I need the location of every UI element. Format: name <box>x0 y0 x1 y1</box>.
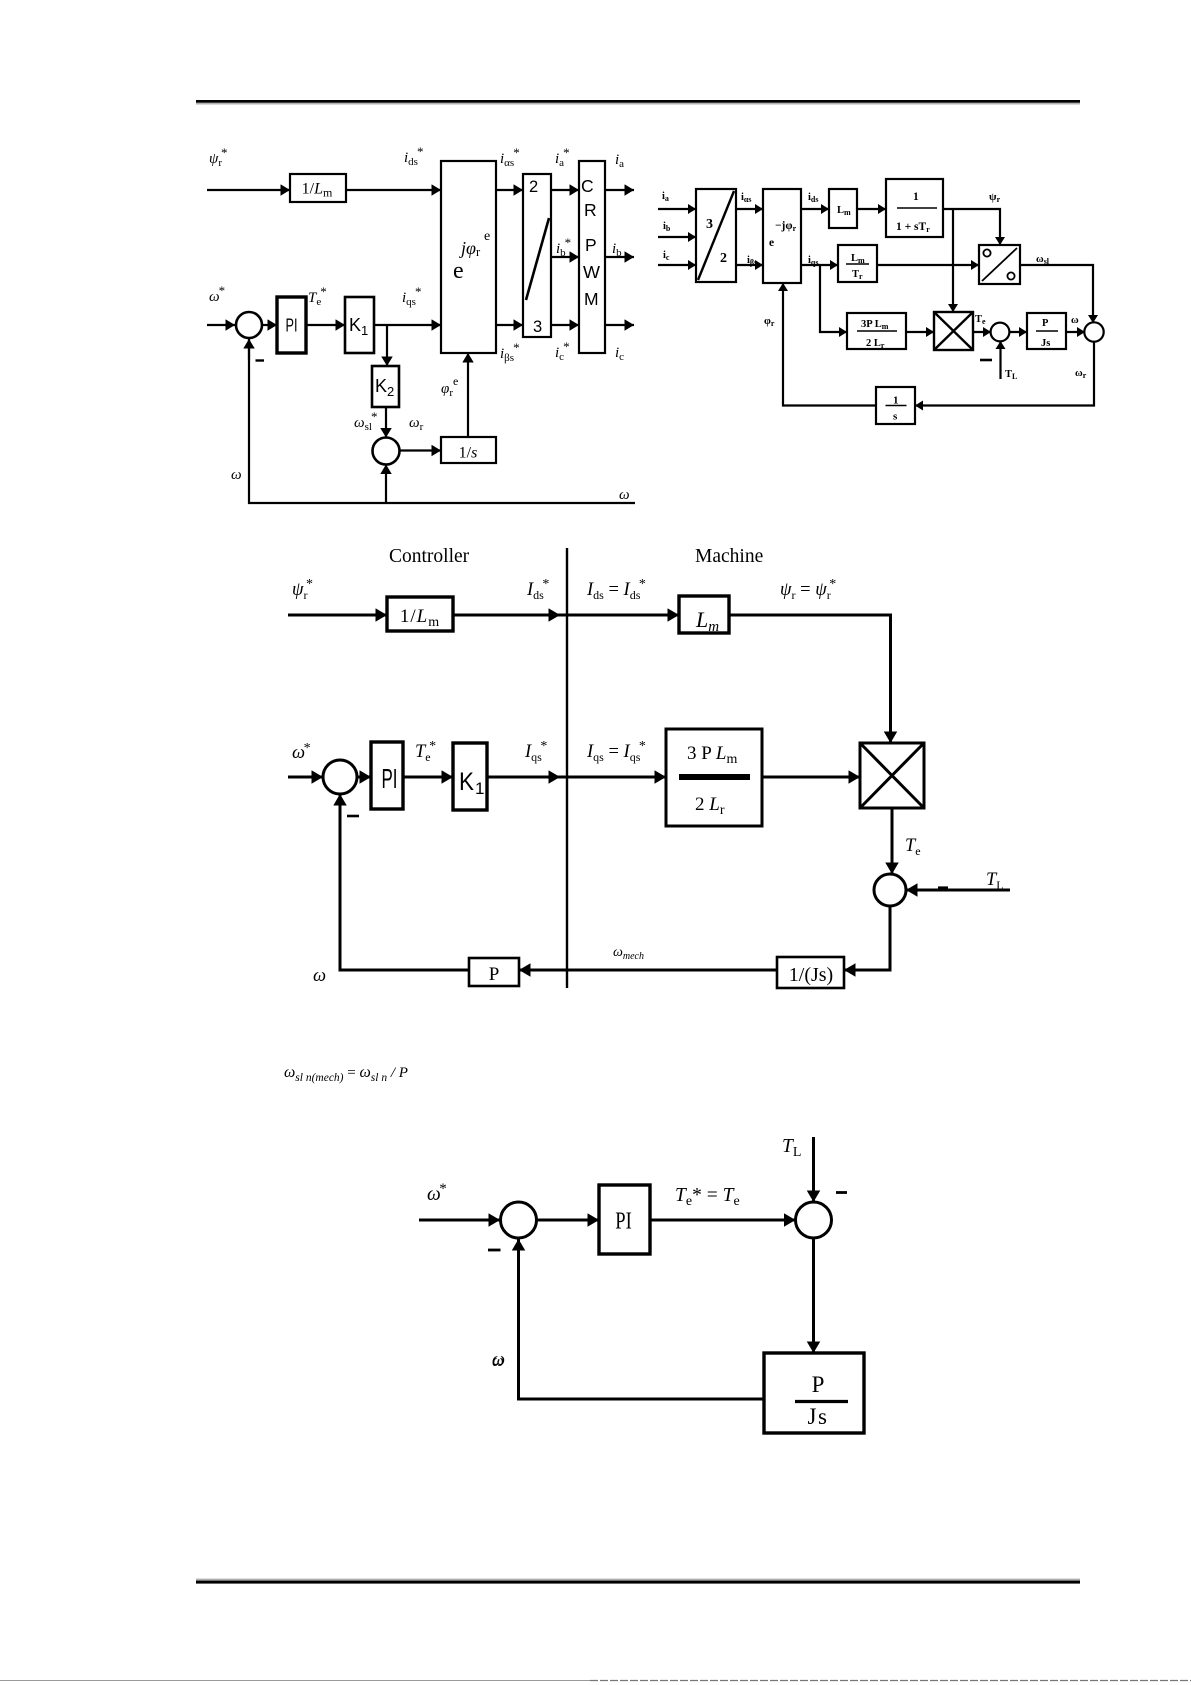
svg-text:ψr*: ψr* <box>292 577 313 602</box>
svg-text:Js: Js <box>1041 338 1050 349</box>
svg-text:Ids = Ids*: Ids = Ids* <box>586 577 646 602</box>
svg-text:3: 3 <box>706 217 713 232</box>
svg-text:K1: K1 <box>349 315 368 338</box>
svg-text:M: M <box>584 289 599 309</box>
svg-text:ω*: ω* <box>209 283 225 305</box>
svg-text:P: P <box>585 235 597 255</box>
svg-text:Te: Te <box>905 836 921 858</box>
svg-text:1: 1 <box>913 191 919 203</box>
svg-text:PI: PI <box>286 316 298 336</box>
svg-text:1/s: 1/s <box>459 445 478 462</box>
svg-text:3 P Lm: 3 P Lm <box>687 743 737 767</box>
svg-text:1: 1 <box>893 395 899 407</box>
svg-text:PI: PI <box>615 1209 632 1235</box>
svg-text:ω: ω <box>231 467 242 483</box>
svg-text:W: W <box>583 262 600 282</box>
svg-text:Machine: Machine <box>695 546 763 567</box>
svg-text:3: 3 <box>533 318 542 336</box>
svg-text:ids: ids <box>808 192 818 204</box>
svg-text:ωr: ωr <box>409 415 424 433</box>
svg-text:ia: ia <box>615 152 624 170</box>
svg-text:TL: TL <box>1005 369 1017 381</box>
svg-text:P: P <box>812 1372 825 1397</box>
svg-text:φre: φre <box>441 374 458 399</box>
svg-text:−jφr: −jφr <box>775 220 797 233</box>
svg-text:2 Lr: 2 Lr <box>866 338 885 350</box>
svg-text:s: s <box>893 411 898 423</box>
svg-text:ωsl: ωsl <box>1036 254 1050 266</box>
svg-text:ib: ib <box>612 241 622 259</box>
svg-text:ωsl*: ωsl* <box>354 409 377 433</box>
svg-text:ic*: ic* <box>555 339 570 363</box>
svg-text:Ids*: Ids* <box>526 577 549 602</box>
svg-text:ωr: ωr <box>1075 368 1087 380</box>
svg-text:ia: ia <box>662 191 669 203</box>
svg-text:P: P <box>1042 318 1049 329</box>
svg-text:iqs*: iqs* <box>402 284 421 308</box>
svg-text:ω: ω <box>313 966 326 986</box>
svg-text:Lm: Lm <box>695 607 719 635</box>
svg-text:ia*: ia* <box>555 145 570 169</box>
svg-text:ω: ω <box>619 487 630 503</box>
svg-text:ids*: ids* <box>404 144 423 168</box>
svg-text:TL: TL <box>986 870 1004 892</box>
svg-text:Te: Te <box>975 314 986 326</box>
svg-text:1/Lm: 1/Lm <box>400 606 440 630</box>
svg-text:Lm: Lm <box>837 205 851 217</box>
svg-text:2: 2 <box>720 251 727 266</box>
svg-text:ib: ib <box>663 221 671 233</box>
svg-text:1/Lm: 1/Lm <box>302 181 333 200</box>
svg-text:ωmech: ωmech <box>613 945 644 962</box>
svg-text:iαs*: iαs* <box>500 145 520 169</box>
svg-text:ψr*: ψr* <box>209 145 228 169</box>
svg-text:e: e <box>453 258 464 284</box>
svg-text:TL: TL <box>782 1136 801 1160</box>
svg-text:Iqs = Iqs*: Iqs = Iqs* <box>586 739 646 764</box>
svg-text:ic: ic <box>663 250 670 262</box>
svg-text:Js: Js <box>808 1404 829 1429</box>
svg-text:Te*: Te* <box>415 739 436 764</box>
svg-text:Iqs*: Iqs* <box>524 739 547 764</box>
svg-text:P: P <box>489 964 500 985</box>
svg-text:Controller: Controller <box>389 546 470 567</box>
svg-text:1 + sTr: 1 + sTr <box>896 221 930 234</box>
svg-text:PI: PI <box>382 763 398 794</box>
svg-text:ic: ic <box>615 345 624 363</box>
svg-text:ω*: ω* <box>427 1181 447 1205</box>
svg-text:Tr: Tr <box>852 269 863 281</box>
svg-text:ψr: ψr <box>989 191 1001 204</box>
svg-text:2: 2 <box>529 178 538 196</box>
svg-text:iqs: iqs <box>808 255 818 267</box>
svg-text:jφr: jφr <box>459 238 481 259</box>
svg-text:iβs*: iβs* <box>500 340 520 364</box>
svg-text:ω*: ω* <box>292 741 311 763</box>
svg-text:C: C <box>581 176 594 196</box>
svg-text:1: 1 <box>475 779 484 798</box>
svg-text:ψr = ψr*: ψr = ψr* <box>780 577 836 602</box>
svg-text:Te*: Te* <box>308 284 327 308</box>
svg-text:iβs: iβs <box>747 255 757 267</box>
svg-text:ω: ω <box>1071 315 1079 326</box>
svg-text:K2: K2 <box>375 376 394 399</box>
svg-text:Lm: Lm <box>851 253 865 265</box>
svg-text:e: e <box>769 237 774 249</box>
svg-text:1/(Js): 1/(Js) <box>789 964 833 986</box>
svg-text:ib*: ib* <box>556 235 571 259</box>
svg-text:iαs: iαs <box>741 192 752 204</box>
svg-text:Te* = Te: Te* = Te <box>675 1185 740 1209</box>
svg-text:φr: φr <box>764 315 775 328</box>
svg-text:ωsl n(mech) = ωsl n / P: ωsl n(mech) = ωsl n / P <box>284 1064 408 1084</box>
svg-text:ω: ω <box>492 1351 504 1370</box>
svg-text:2 Lr: 2 Lr <box>695 794 725 818</box>
svg-text:K: K <box>459 768 474 796</box>
svg-text:R: R <box>584 200 597 220</box>
svg-text:3P Lm: 3P Lm <box>861 319 889 331</box>
svg-text:e: e <box>484 229 490 244</box>
